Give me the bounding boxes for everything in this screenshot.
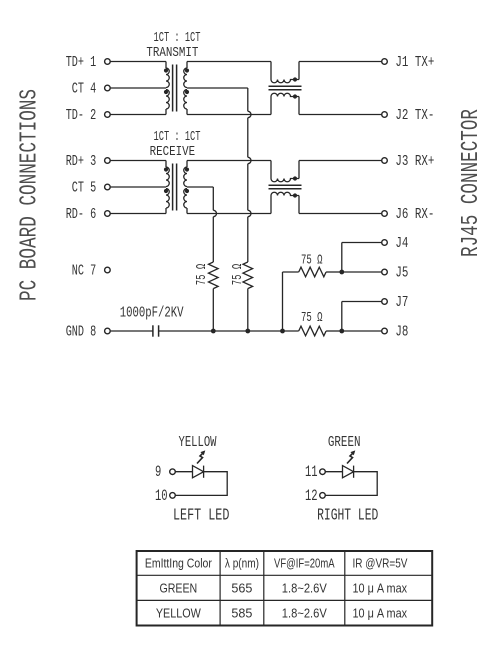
pin terminal pin J4 [382, 240, 388, 246]
resistor R1 75ohm [209, 262, 219, 289]
svg-text:GND 8: GND 8 [66, 323, 97, 340]
wire left row B [110, 87, 166, 89]
svg-text:PC BOARD CONNECTIONS: PC BOARD CONNECTIONS [17, 89, 44, 301]
wire TX center tap vertical (lower) [247, 217, 249, 262]
table row GREEN [159, 581, 407, 595]
wire choke L1 bottom to J2 [299, 114, 382, 116]
wire GND bus to J8 [342, 330, 382, 332]
wire T1 secondary center tap [187, 87, 248, 89]
wire J7 branch horizontal [342, 301, 382, 303]
wire TX center tap vertical (mid2) [247, 164, 249, 211]
junction RX tap junction on GND bus [211, 329, 216, 334]
common-mode choke L2 (RX) [269, 161, 302, 214]
wire T2 secondary bottom to choke L2 [187, 213, 271, 215]
wire left row E (receive) [110, 186, 166, 188]
capacitor C1 1000pF/2KV [153, 325, 159, 336]
svg-text:10 μ A max: 10 μ A max [353, 581, 408, 595]
svg-text:RD- 6: RD- 6 [66, 206, 97, 223]
junction junction GND bus / R3 feed [280, 329, 285, 334]
wire right LED D2 anode wire [326, 471, 343, 473]
svg-text:YELLOW: YELLOW [179, 434, 217, 451]
wire left LED D1 anode wire [176, 471, 193, 473]
wire R3 to junction J4/J5 [326, 271, 342, 273]
LED left LED D1 diode [193, 466, 204, 478]
wire RX center tap vertical (upper) [212, 187, 214, 210]
wire J7 branch vertical [341, 302, 343, 332]
svg-text:J6 RX-: J6 RX- [395, 206, 434, 223]
svg-text:565: 565 [231, 581, 252, 595]
wire TX center tap vertical (upper) [247, 88, 249, 111]
svg-text:J8: J8 [395, 323, 408, 340]
pin terminal pin 4 [105, 85, 111, 91]
svg-text:J2 TX-: J2 TX- [395, 107, 434, 124]
wire right LED D2 cathode wire [326, 472, 378, 496]
pin terminal pin 8 [105, 328, 111, 334]
svg-text:NC 7: NC 7 [72, 262, 96, 279]
svg-text:RD+ 3: RD+ 3 [66, 153, 97, 170]
svg-text:J1 TX+: J1 TX+ [395, 54, 434, 71]
pin terminal pin J7 [382, 299, 388, 305]
svg-text:IR @VR=5V: IR @VR=5V [353, 557, 409, 571]
wire TX center tap vertical (mid1) [247, 118, 249, 158]
svg-text:1000pF/2KV: 1000pF/2KV [120, 305, 184, 322]
svg-text:1.8~2.6V: 1.8~2.6V [282, 581, 328, 595]
wire T1 secondary top to choke L1 [187, 61, 271, 63]
wire GND bus to R4 [283, 330, 299, 332]
pin terminal pin J2 [382, 112, 388, 118]
pin terminal pin 12 [320, 493, 326, 499]
svg-text:J3 RX+: J3 RX+ [395, 153, 434, 170]
wire left row C [110, 114, 166, 116]
wire GND pin to capacitor C1 [110, 330, 152, 332]
resistor R3 75ohm [299, 267, 326, 277]
wire R4 to junction J7/J8 [326, 330, 342, 332]
svg-text:1CT : 1CT: 1CT : 1CT [154, 30, 201, 46]
common-mode choke L1 (TX) [269, 62, 302, 115]
wire crossover hop TX tap over J3 row [248, 157, 251, 163]
wire left row F (receive) [110, 213, 166, 215]
svg-text:1CT : 1CT: 1CT : 1CT [154, 129, 201, 145]
svg-text:1.8~2.6V: 1.8~2.6V [282, 606, 328, 620]
svg-text:YELLOW: YELLOW [156, 606, 201, 620]
transformer T2 RECEIVE [164, 161, 189, 214]
pin terminal pin J5 [382, 269, 388, 275]
wire left LED D1 cathode wire [176, 472, 228, 496]
wire T1 secondary bottom to choke L1 [187, 114, 271, 116]
svg-text:RJ45 CONNECTOR: RJ45 CONNECTOR [458, 109, 485, 257]
svg-text:J5: J5 [395, 264, 408, 281]
svg-text:VF@IF=20mA: VF@IF=20mA [274, 557, 335, 571]
table grid (LED characteristics) [137, 551, 433, 626]
wire R2 bottom to GND bus [247, 289, 249, 331]
wire crossover hop TX tap over J2 row [248, 111, 251, 117]
svg-text:RIGHT LED: RIGHT LED [317, 506, 378, 525]
wire choke L1 top to J1 [299, 61, 382, 63]
wire T2 secondary center tap [187, 186, 213, 188]
pin terminal pin 2 [105, 112, 111, 118]
wire choke L2 bottom to J6 [299, 213, 382, 215]
junction junction R4 / J7 branch [339, 329, 344, 334]
wire left row D (receive) [110, 160, 166, 162]
pin terminal pin 7 [105, 267, 111, 273]
svg-text:10: 10 [155, 487, 168, 505]
svg-text:585: 585 [231, 606, 252, 620]
junction junction R3 / J4 branch [339, 270, 344, 275]
svg-text:CT 5: CT 5 [72, 179, 96, 196]
wire R1 bottom to GND bus [212, 289, 214, 331]
junction TX tap junction on GND bus [245, 329, 250, 334]
svg-text:12: 12 [305, 487, 318, 505]
pin terminal pin 11 [320, 469, 326, 475]
wire RX center tap vertical (lower) [212, 217, 214, 262]
LED arrow (left LED D1) [197, 450, 205, 463]
pin terminal pin 5 [105, 184, 111, 190]
table row YELLOW [156, 606, 408, 620]
pin terminal pin J8 [382, 328, 388, 334]
svg-text:10 μ A max: 10 μ A max [353, 606, 408, 620]
wire crossover hop TX tap over J6 row [248, 210, 251, 216]
transformer T1 TRANSMIT [164, 62, 189, 115]
LED arrow (right LED D2) [347, 450, 355, 463]
resistor R4 75ohm [299, 326, 326, 336]
pin terminal pin J3 [382, 158, 388, 164]
wire R3 feed horizontal [283, 271, 299, 273]
pin terminal pin 6 [105, 211, 111, 217]
svg-text:TD+ 1: TD+ 1 [66, 54, 97, 71]
wire crossover hop RX tap over J6 row [213, 210, 216, 216]
svg-text:9: 9 [155, 463, 161, 481]
wire R3 feed vertical [282, 272, 284, 331]
pin terminal pin 9 [170, 469, 176, 475]
wire left row A [110, 61, 166, 63]
svg-text:75 Ω: 75 Ω [301, 310, 323, 326]
svg-text:GREEN: GREEN [328, 434, 361, 451]
wire capacitor C1 to GND bus [159, 330, 283, 332]
resistor R2 75ohm [243, 262, 253, 289]
wire T2 secondary top to choke L2 [187, 160, 271, 162]
svg-text:TRANSMIT: TRANSMIT [146, 45, 198, 61]
svg-text:EmIttIng Color: EmIttIng Color [145, 557, 212, 571]
svg-text:J4: J4 [395, 235, 408, 252]
wire J4 branch horizontal [342, 242, 382, 244]
table row header [145, 557, 408, 571]
pin terminal pin 10 [170, 493, 176, 499]
svg-text:CT 4: CT 4 [72, 80, 96, 97]
svg-text:GREEN: GREEN [159, 581, 197, 595]
svg-text:RECEIVE: RECEIVE [150, 144, 196, 160]
svg-text:TD- 2: TD- 2 [66, 107, 97, 124]
pin terminal pin J6 [382, 211, 388, 217]
pin terminal pin J1 [382, 59, 388, 65]
svg-text:11: 11 [305, 463, 318, 481]
svg-text:λ p(nm): λ p(nm) [225, 557, 259, 571]
wire J5 wire [342, 271, 382, 273]
LED right LED D2 diode [343, 466, 354, 478]
pin terminal pin 3 [105, 158, 111, 164]
svg-text:J7: J7 [395, 294, 408, 311]
wire J4 branch vertical [341, 243, 343, 273]
pin terminal pin 1 [105, 59, 111, 65]
wire choke L2 top to J3 [299, 160, 382, 162]
svg-text:LEFT LED: LEFT LED [173, 506, 230, 525]
